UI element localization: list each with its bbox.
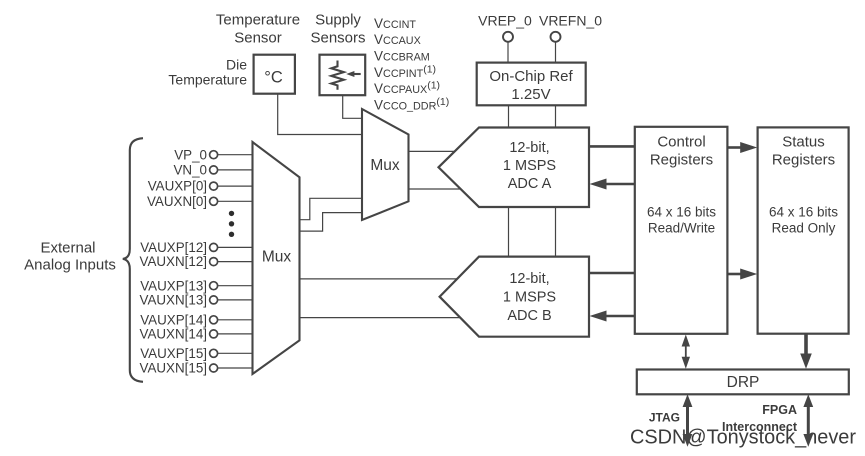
wire VAUXN[15] to Mux xyxy=(218,367,253,369)
bus control registers to ADC B (arrow) xyxy=(604,315,635,318)
label External Analog Inputs xyxy=(24,240,116,274)
bidirectional JTAG arrow below DRP xyxy=(686,403,689,438)
svg-text:Control: Control xyxy=(657,134,705,151)
status registers box xyxy=(758,127,849,333)
wire VAUXP[15] to Mux xyxy=(218,352,253,354)
svg-text:Temperature: Temperature xyxy=(168,72,247,88)
mux M2 (sensor mux) trapezoid xyxy=(362,109,409,220)
input VAUXP[0] terminal circle xyxy=(210,182,218,190)
wire ADC A to ADC B (right) xyxy=(555,207,557,257)
wire mux M1 to ADC B (N) xyxy=(300,317,461,319)
supply sensor wiper arrow xyxy=(353,73,361,75)
on-chip ref label xyxy=(489,68,573,103)
svg-text:1 MSPS: 1 MSPS xyxy=(503,290,556,306)
arrow status registers to DRP xyxy=(804,334,808,357)
svg-text:1 MSPS: 1 MSPS xyxy=(503,158,556,174)
wire supply sensors to mux M2 xyxy=(343,95,362,118)
input VAUXP[13] terminal circle xyxy=(210,282,218,290)
svg-text:VAUXP[12]: VAUXP[12] xyxy=(140,240,207,255)
svg-text:Read/Write: Read/Write xyxy=(648,221,715,236)
svg-text:64 x 16 bits: 64 x 16 bits xyxy=(769,205,838,220)
svg-text:VAUXN[13]: VAUXN[13] xyxy=(140,293,207,308)
wire mux M2 to ADC A (P) xyxy=(409,150,456,152)
svg-text:ADC B: ADC B xyxy=(507,308,551,324)
svg-text:VAUXN[0]: VAUXN[0] xyxy=(147,194,207,209)
svg-text:Die: Die xyxy=(226,57,247,73)
svg-text:64 x 16 bits: 64 x 16 bits xyxy=(647,205,716,220)
bidirectional arrow control registers to DRP xyxy=(685,345,687,358)
svg-text:VAUXP[0]: VAUXP[0] xyxy=(148,179,207,194)
svg-text:Analog Inputs: Analog Inputs xyxy=(24,257,116,274)
input VAUXN[12] terminal circle xyxy=(210,258,218,266)
wire VAUXP[0] to Mux xyxy=(218,185,253,187)
status registers label xyxy=(772,134,835,169)
svg-text:FPGA: FPGA xyxy=(762,403,797,417)
wire VN_0 to Mux xyxy=(218,169,253,171)
svg-text:VCCBRAM: VCCBRAM xyxy=(374,49,430,64)
label Temperature Sensor xyxy=(216,11,300,46)
bus ADC B to control registers xyxy=(589,272,635,275)
wire VAUXP[12] to Mux xyxy=(218,246,253,248)
ellipsis dots between VAUXN[0] and VAUXP[12] xyxy=(229,211,234,237)
on-chip ref box xyxy=(477,63,586,106)
wire mux M1 to ADC B (P) xyxy=(300,278,458,280)
svg-text:°C: °C xyxy=(264,69,283,87)
input VAUXN[14] terminal circle xyxy=(210,330,218,338)
VREP_0 terminal circle xyxy=(503,32,513,42)
wire mux M1 to mux M2 (A) xyxy=(300,198,363,219)
svg-text:Interconnect: Interconnect xyxy=(722,420,798,434)
ADC A pentagon xyxy=(439,128,590,208)
svg-text:VREP_0: VREP_0 xyxy=(478,12,532,28)
svg-text:VN_0: VN_0 xyxy=(174,163,208,178)
svg-text:Supply: Supply xyxy=(315,11,361,28)
mux M1 (big external-input mux) trapezoid xyxy=(253,142,300,374)
svg-text:DRP: DRP xyxy=(727,374,760,391)
input VAUXN[13] terminal circle xyxy=(210,296,218,304)
svg-text:12-bit,: 12-bit, xyxy=(509,271,549,287)
input VN_0 terminal circle xyxy=(210,166,218,174)
svg-text:Read Only: Read Only xyxy=(772,221,836,236)
wire mux M1 to mux M2 (B) xyxy=(300,213,363,232)
wire VREP_0 to on-chip ref xyxy=(507,42,509,63)
label FPGA Interconnect xyxy=(722,403,798,434)
svg-text:Mux: Mux xyxy=(370,157,400,174)
svg-text:VCCAUX: VCCAUX xyxy=(374,32,421,47)
svg-text:On-Chip Ref: On-Chip Ref xyxy=(489,68,573,85)
input VP_0 terminal circle xyxy=(210,151,218,159)
supply sensor resistor zigzag symbol xyxy=(331,61,344,90)
svg-text:VAUXN[14]: VAUXN[14] xyxy=(140,327,207,342)
svg-text:Temperature: Temperature xyxy=(216,11,300,28)
wire VREFN_0 to on-chip ref xyxy=(555,42,557,63)
svg-text:VAUXN[12]: VAUXN[12] xyxy=(140,254,207,269)
VREFN_0 terminal circle xyxy=(551,32,561,42)
bidirectional FPGA interconnect arrow below DRP xyxy=(807,403,810,438)
input VAUXP[12] terminal circle xyxy=(210,243,218,251)
label Supply Sensors xyxy=(310,11,365,46)
wire temperature sensor to mux M2 xyxy=(278,94,362,135)
svg-text:External: External xyxy=(40,240,95,257)
svg-text:Sensors: Sensors xyxy=(310,29,365,46)
curly brace for external analog inputs xyxy=(123,138,143,382)
svg-text:1.25V: 1.25V xyxy=(511,86,550,103)
input VAUXN[15] terminal circle xyxy=(210,364,218,372)
control registers label xyxy=(650,134,713,169)
ADC B label xyxy=(503,271,556,324)
svg-text:ADC A: ADC A xyxy=(508,176,552,192)
bus control registers to ADC A (arrow) xyxy=(604,183,635,186)
wire VAUXN[12] to Mux xyxy=(218,261,253,263)
svg-text:VAUXP[15]: VAUXP[15] xyxy=(140,346,207,361)
supply sensors box xyxy=(320,55,366,95)
wire VAUXP[13] to Mux xyxy=(218,285,253,287)
svg-text:VP_0: VP_0 xyxy=(174,147,207,162)
ADC B pentagon xyxy=(440,257,589,337)
bus control to status (bottom arrow) xyxy=(727,273,742,276)
temperature sensor box (degC) xyxy=(254,55,295,94)
wire VAUXN[0] to Mux xyxy=(218,200,253,202)
svg-text:VCCINT: VCCINT xyxy=(374,16,416,31)
DRP box xyxy=(637,370,849,395)
svg-text:VAUXP[14]: VAUXP[14] xyxy=(140,312,207,327)
svg-text:VREFN_0: VREFN_0 xyxy=(539,12,602,28)
input VAUXN[0] terminal circle xyxy=(210,197,218,205)
wire VAUXP[14] to Mux xyxy=(218,319,253,321)
svg-text:Sensor: Sensor xyxy=(234,29,282,46)
wire VAUXN[14] to Mux xyxy=(218,333,253,335)
svg-text:VAUXP[13]: VAUXP[13] xyxy=(140,278,207,293)
svg-text:Registers: Registers xyxy=(772,152,835,169)
input VAUXP[14] terminal circle xyxy=(210,316,218,324)
wire ADC A to ADC B (left) xyxy=(508,207,510,257)
bus control to status (top arrow) xyxy=(727,146,742,149)
supply rail labels VCCINT etc xyxy=(374,16,449,113)
wire on-chip ref to ADC A (left) xyxy=(508,105,510,127)
control registers box xyxy=(635,127,728,334)
label Die Temperature xyxy=(168,57,247,88)
wire VAUXN[13] to Mux xyxy=(218,299,253,301)
svg-text:JTAG: JTAG xyxy=(649,411,680,425)
svg-text:12-bit,: 12-bit, xyxy=(509,140,549,156)
bus ADC A to control registers xyxy=(589,145,635,148)
ADC A label xyxy=(503,140,556,192)
wire VP_0 to Mux xyxy=(218,154,253,156)
svg-text:VAUXN[15]: VAUXN[15] xyxy=(140,361,207,376)
svg-text:Status: Status xyxy=(782,134,825,151)
wire mux M2 to ADC A (N) xyxy=(409,188,461,190)
svg-text:Registers: Registers xyxy=(650,152,713,169)
input VAUXP[15] terminal circle xyxy=(210,349,218,357)
svg-text:Mux: Mux xyxy=(262,249,292,266)
wire on-chip ref to ADC A (right) xyxy=(555,105,557,127)
